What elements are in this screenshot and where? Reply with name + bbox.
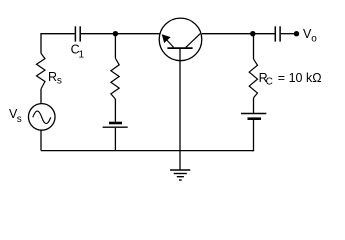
svg-text:s: s (17, 114, 22, 125)
label VS (9, 107, 22, 125)
transistor Q1 emitter diagonal with arrow (165, 38, 174, 48)
capacitor C1 (75, 26, 80, 41)
svg-text:1: 1 (79, 50, 85, 61)
svg-text:s: s (57, 75, 62, 86)
ground (170, 170, 190, 180)
wire C1 to transistor emitter lead (81, 33, 159, 35)
wire bottom rail (41, 150, 254, 152)
svg-text:R: R (48, 70, 57, 84)
wire node A down to middle resistor (114, 34, 116, 59)
wire collector lead to output capacitor (202, 33, 275, 35)
label Vo (303, 27, 317, 44)
capacitor C2 (output coupling) (275, 26, 280, 41)
svg-text:o: o (311, 33, 317, 44)
battery VEE (short thick bar top, long thin bar below) (109, 122, 122, 125)
node A (junction dot at emitter bias branch) (113, 31, 118, 36)
svg-text:C: C (266, 77, 273, 88)
node Vo (output terminal dot) (294, 31, 299, 36)
svg-text:= 10 kΩ: = 10 kΩ (278, 71, 322, 85)
transistor Q1 collector diagonal (186, 34, 201, 48)
wire VCC down and left to bottom rail (252, 120, 254, 151)
source VS (sine source circle) (28, 104, 55, 131)
label C1 (71, 42, 85, 60)
resistor RC (249, 59, 257, 98)
transistor Q1 base bar (167, 47, 192, 49)
wire node B down to RC (253, 34, 255, 59)
transistor Q1 (common-base BJT, circle) (159, 18, 202, 61)
wire RC to battery VCC (253, 98, 255, 113)
wire RE to battery VEE (114, 99, 116, 122)
label RC = 10 kOhm (259, 71, 322, 88)
label RS (48, 70, 62, 87)
wire VEE to bottom rail (114, 128, 116, 151)
wire top-left segment (Vs branch top to C1 left plate) (41, 34, 75, 54)
resistor RS (37, 53, 46, 89)
battery VCC (long thin bar top, short thick bar below) (241, 113, 266, 115)
resistor RE (emitter bias resistor, middle branch) (111, 58, 119, 99)
wire Vs to bottom rail (40, 130, 42, 150)
wire base lead down to ground (179, 49, 181, 170)
node B (junction dot at collector / RC branch) (250, 31, 255, 36)
wire C2 to output terminal (281, 33, 297, 35)
wire RS to Vs source (40, 89, 42, 104)
